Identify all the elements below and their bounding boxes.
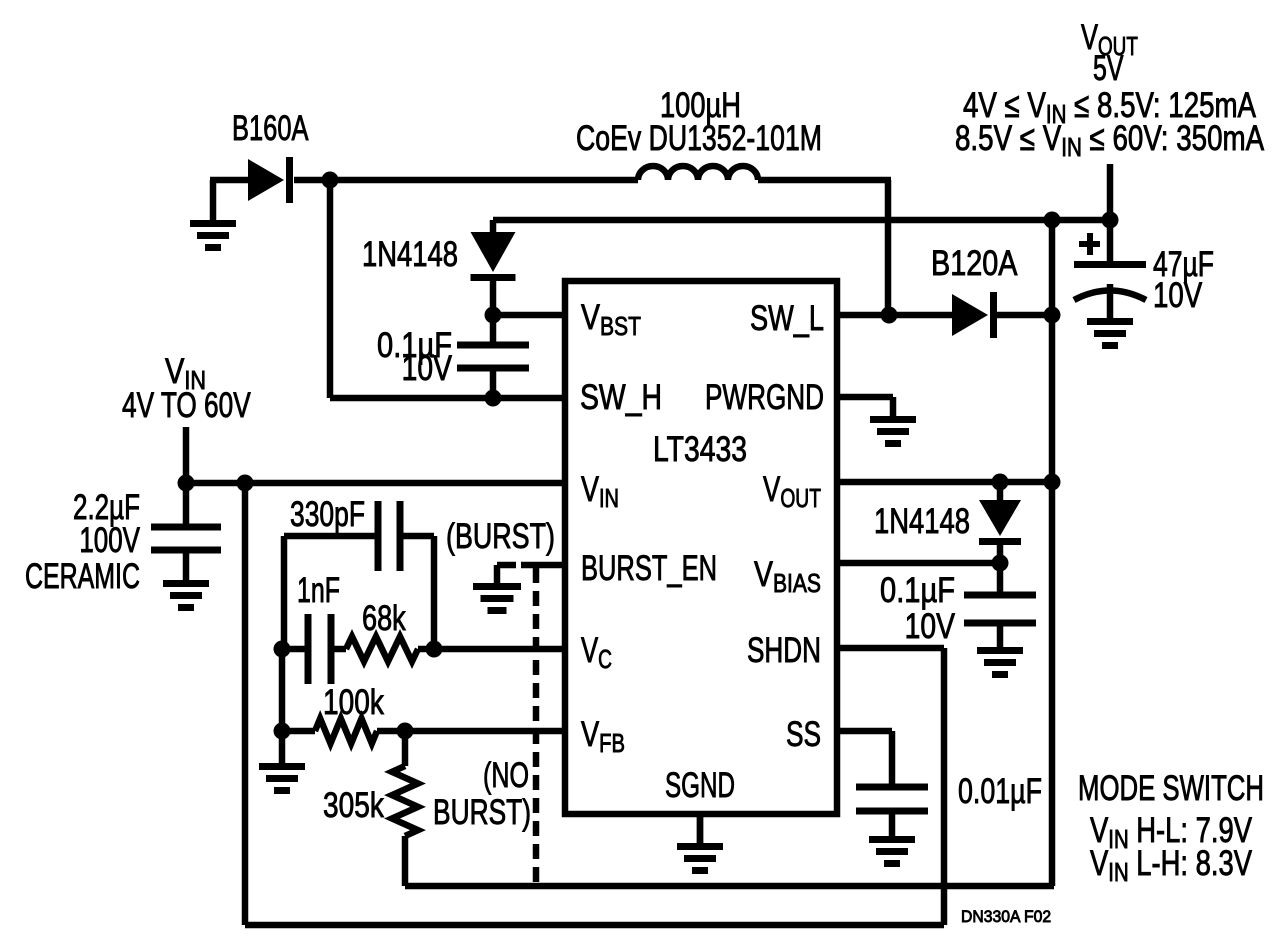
wire (VOUT stem) bbox=[1107, 164, 1114, 261]
svg-text:0.01µF: 0.01µF bbox=[958, 772, 1042, 811]
svg-text:10V: 10V bbox=[1153, 275, 1202, 315]
ground (47µF) bbox=[1087, 284, 1133, 349]
capacitor 0.01µF (soft-start) bbox=[856, 784, 928, 815]
capacitor C out 47µF 10V (polarized) bbox=[1074, 233, 1146, 300]
wire (VIN rail) bbox=[184, 480, 565, 487]
svg-text:DN330A F02: DN330A F02 bbox=[961, 907, 1051, 926]
capacitor 1nF bbox=[305, 614, 335, 684]
ground (B160A anode) bbox=[190, 180, 236, 251]
wire bbox=[400, 533, 434, 540]
ground (100k) bbox=[259, 731, 305, 794]
wire bbox=[997, 482, 1004, 502]
node bbox=[1044, 212, 1061, 229]
wire (VBST pin) bbox=[493, 312, 565, 319]
svg-text:305k: 305k bbox=[323, 785, 384, 825]
op-amp U1 LT3433 regulator body bbox=[565, 281, 837, 814]
ground (PWRGND) bbox=[870, 397, 916, 447]
node bbox=[426, 641, 443, 658]
resistor 305k bbox=[392, 766, 418, 836]
svg-text:330pF: 330pF bbox=[290, 494, 365, 533]
svg-text:10V: 10V bbox=[402, 348, 453, 388]
svg-text:100V: 100V bbox=[79, 520, 140, 560]
svg-text:5V: 5V bbox=[1093, 49, 1124, 88]
node (VBIAS) bbox=[992, 555, 1009, 572]
wire (BURST_EN pin stub) bbox=[521, 562, 565, 569]
wire bbox=[997, 312, 1052, 319]
wire bbox=[402, 731, 409, 766]
node bbox=[237, 475, 254, 492]
ground (soft-start cap) bbox=[869, 814, 915, 867]
node bbox=[992, 474, 1009, 491]
svg-text:SS: SS bbox=[786, 714, 821, 754]
svg-text:100k: 100k bbox=[323, 682, 384, 722]
inductor L 100µH CoEv DU1352-101M bbox=[638, 166, 758, 180]
wire (PWRGND pin) bbox=[837, 394, 893, 401]
node (SW_H) bbox=[485, 390, 502, 407]
wire bbox=[402, 836, 409, 886]
wire (SGND pin) bbox=[697, 814, 704, 843]
ground (BURST option) bbox=[473, 565, 521, 614]
svg-text:1nF: 1nF bbox=[297, 571, 340, 610]
wire bbox=[490, 371, 497, 398]
diode D2 1N4148 (bootstrap) bbox=[471, 232, 516, 281]
node bbox=[274, 641, 291, 658]
svg-text:BURST_EN: BURST_EN bbox=[581, 549, 717, 588]
svg-text:SW_L: SW_L bbox=[750, 299, 824, 338]
capacitor 330pF bbox=[375, 501, 404, 571]
svg-text:SHDN: SHDN bbox=[747, 630, 821, 670]
svg-text:0.1µF: 0.1µF bbox=[880, 570, 955, 609]
wire bbox=[242, 483, 249, 925]
ground (SGND) bbox=[677, 814, 723, 874]
wire bbox=[331, 646, 346, 653]
node (VIN) bbox=[178, 475, 195, 492]
svg-text:8.5V ≤ VIN​ ≤ 60V: 350mA: 8.5V ≤ VIN​ ≤ 60V: 350mA bbox=[955, 118, 1264, 162]
node bbox=[1044, 474, 1061, 491]
wire (VOUT pin) bbox=[837, 479, 1054, 486]
svg-text:4V TO 60V: 4V TO 60V bbox=[122, 385, 251, 425]
wire (SW_L pin) bbox=[837, 312, 952, 319]
svg-text:(NO: (NO bbox=[483, 756, 529, 795]
wire bbox=[282, 646, 308, 653]
svg-text:68k: 68k bbox=[362, 599, 406, 638]
resistor 100k bbox=[315, 719, 377, 744]
ground (2.2µF) bbox=[163, 553, 209, 611]
svg-text:1N4148: 1N4148 bbox=[362, 235, 458, 274]
wire bbox=[294, 177, 638, 184]
svg-text:BURST): BURST) bbox=[433, 792, 531, 832]
diode D3 1N4148 (bias) bbox=[979, 500, 1021, 545]
svg-text:SW_H: SW_H bbox=[580, 377, 662, 417]
node bbox=[1044, 307, 1061, 324]
capacitor 0.1µF 10V (bootstrap) bbox=[457, 342, 529, 372]
capacitor 0.1µF 10V (bias) bbox=[964, 592, 1036, 627]
wire bbox=[490, 220, 497, 234]
node (VBST) bbox=[485, 307, 502, 324]
wire bbox=[997, 545, 1004, 592]
capacitor 2.2µF 100V ceramic bbox=[151, 524, 221, 554]
diode B120A bbox=[952, 292, 997, 338]
ground (bias cap) bbox=[977, 626, 1023, 678]
wire (SW_H pin) bbox=[330, 395, 565, 402]
svg-text:CoEv DU1352-101M: CoEv DU1352-101M bbox=[576, 119, 822, 158]
svg-text:SGND: SGND bbox=[665, 767, 735, 805]
wire (VOUT top rail) bbox=[493, 217, 1110, 224]
wire bbox=[210, 177, 250, 184]
node bbox=[274, 723, 291, 740]
wire (VOUT right rail) bbox=[1049, 220, 1056, 886]
diode B160A bbox=[248, 157, 293, 203]
node bbox=[1102, 212, 1119, 229]
svg-text:1N4148: 1N4148 bbox=[874, 502, 970, 541]
svg-text:LT3433: LT3433 bbox=[653, 429, 747, 469]
svg-text:PWRGND: PWRGND bbox=[705, 377, 824, 417]
wire bbox=[284, 533, 377, 540]
node bbox=[881, 307, 898, 324]
wire bbox=[282, 728, 315, 735]
svg-text:(BURST): (BURST) bbox=[446, 517, 555, 556]
svg-text:CERAMIC: CERAMIC bbox=[25, 557, 140, 596]
wire (bottom rail to SHDN) bbox=[245, 922, 944, 929]
wire bbox=[758, 177, 891, 184]
wire (VBIAS pin) bbox=[837, 560, 1000, 567]
node (VFB) bbox=[397, 723, 414, 740]
resistor 68k bbox=[346, 637, 418, 662]
wire bbox=[279, 649, 286, 731]
node (B160A cathode / SW_H net) bbox=[322, 172, 339, 189]
svg-text:MODE SWITCH: MODE SWITCH bbox=[1078, 768, 1264, 808]
wire (VC pin) bbox=[418, 646, 565, 653]
wire (feedback bottom rail) bbox=[405, 883, 1054, 890]
wire (SS pin) bbox=[837, 728, 892, 735]
svg-text:B120A: B120A bbox=[931, 243, 1018, 282]
wire (SHDN pin) bbox=[837, 645, 944, 652]
wire (VFB pin) bbox=[377, 728, 565, 735]
wire (dashed no-burst option) bbox=[533, 568, 540, 886]
wire bbox=[490, 281, 497, 342]
svg-text:10V: 10V bbox=[905, 606, 956, 646]
wire (dashed to burst ground) bbox=[497, 562, 516, 569]
svg-text:B160A: B160A bbox=[232, 109, 309, 148]
